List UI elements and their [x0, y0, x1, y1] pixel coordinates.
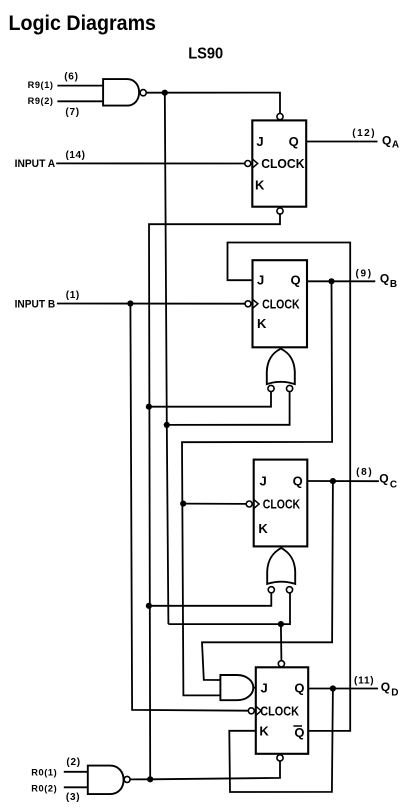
svg-text:J: J — [261, 680, 268, 695]
svg-text:R0(2): R0(2) — [31, 783, 57, 793]
svg-text:Logic Diagrams: Logic Diagrams — [9, 12, 157, 35]
svg-text:INPUT A: INPUT A — [15, 158, 56, 170]
svg-text:(11): (11) — [354, 675, 374, 686]
svg-text:(2): (2) — [66, 757, 80, 768]
svg-text:CLOCK: CLOCK — [261, 156, 305, 171]
svg-text:K: K — [258, 521, 268, 536]
svg-text:Q: Q — [380, 272, 389, 286]
svg-text:(9): (9) — [356, 269, 373, 280]
svg-text:(1): (1) — [66, 290, 80, 301]
svg-text:J: J — [260, 473, 267, 488]
svg-text:A: A — [392, 139, 399, 150]
svg-text:(12): (12) — [352, 128, 376, 139]
svg-text:CLOCK: CLOCK — [260, 703, 299, 718]
svg-text:(3): (3) — [66, 792, 80, 803]
svg-text:Q: Q — [291, 273, 301, 288]
svg-text:B: B — [390, 279, 397, 290]
svg-text:J: J — [257, 273, 264, 288]
svg-text:(8): (8) — [356, 467, 373, 478]
svg-text:Q: Q — [293, 473, 303, 488]
svg-text:INPUT B: INPUT B — [15, 299, 56, 311]
svg-text:R0(1): R0(1) — [31, 768, 57, 778]
svg-text:K: K — [259, 724, 269, 739]
svg-text:K: K — [255, 177, 265, 192]
svg-text:CLOCK: CLOCK — [262, 296, 300, 311]
svg-text:Q: Q — [382, 134, 391, 148]
svg-text:(14): (14) — [66, 150, 86, 161]
svg-text:CLOCK: CLOCK — [263, 497, 301, 512]
svg-text:(6): (6) — [64, 71, 78, 82]
svg-text:Q: Q — [289, 134, 299, 149]
svg-text:Q: Q — [381, 680, 390, 694]
svg-text:Q: Q — [294, 725, 304, 740]
svg-text:Q: Q — [294, 680, 304, 695]
svg-text:LS90: LS90 — [188, 45, 223, 62]
svg-text:D: D — [391, 688, 398, 699]
svg-text:Q: Q — [379, 472, 388, 486]
svg-text:R9(1): R9(1) — [28, 80, 54, 90]
svg-text:R9(2): R9(2) — [28, 96, 54, 106]
svg-text:C: C — [390, 480, 397, 491]
svg-text:J: J — [256, 134, 263, 149]
svg-text:(7): (7) — [65, 107, 79, 118]
svg-text:K: K — [257, 316, 267, 331]
